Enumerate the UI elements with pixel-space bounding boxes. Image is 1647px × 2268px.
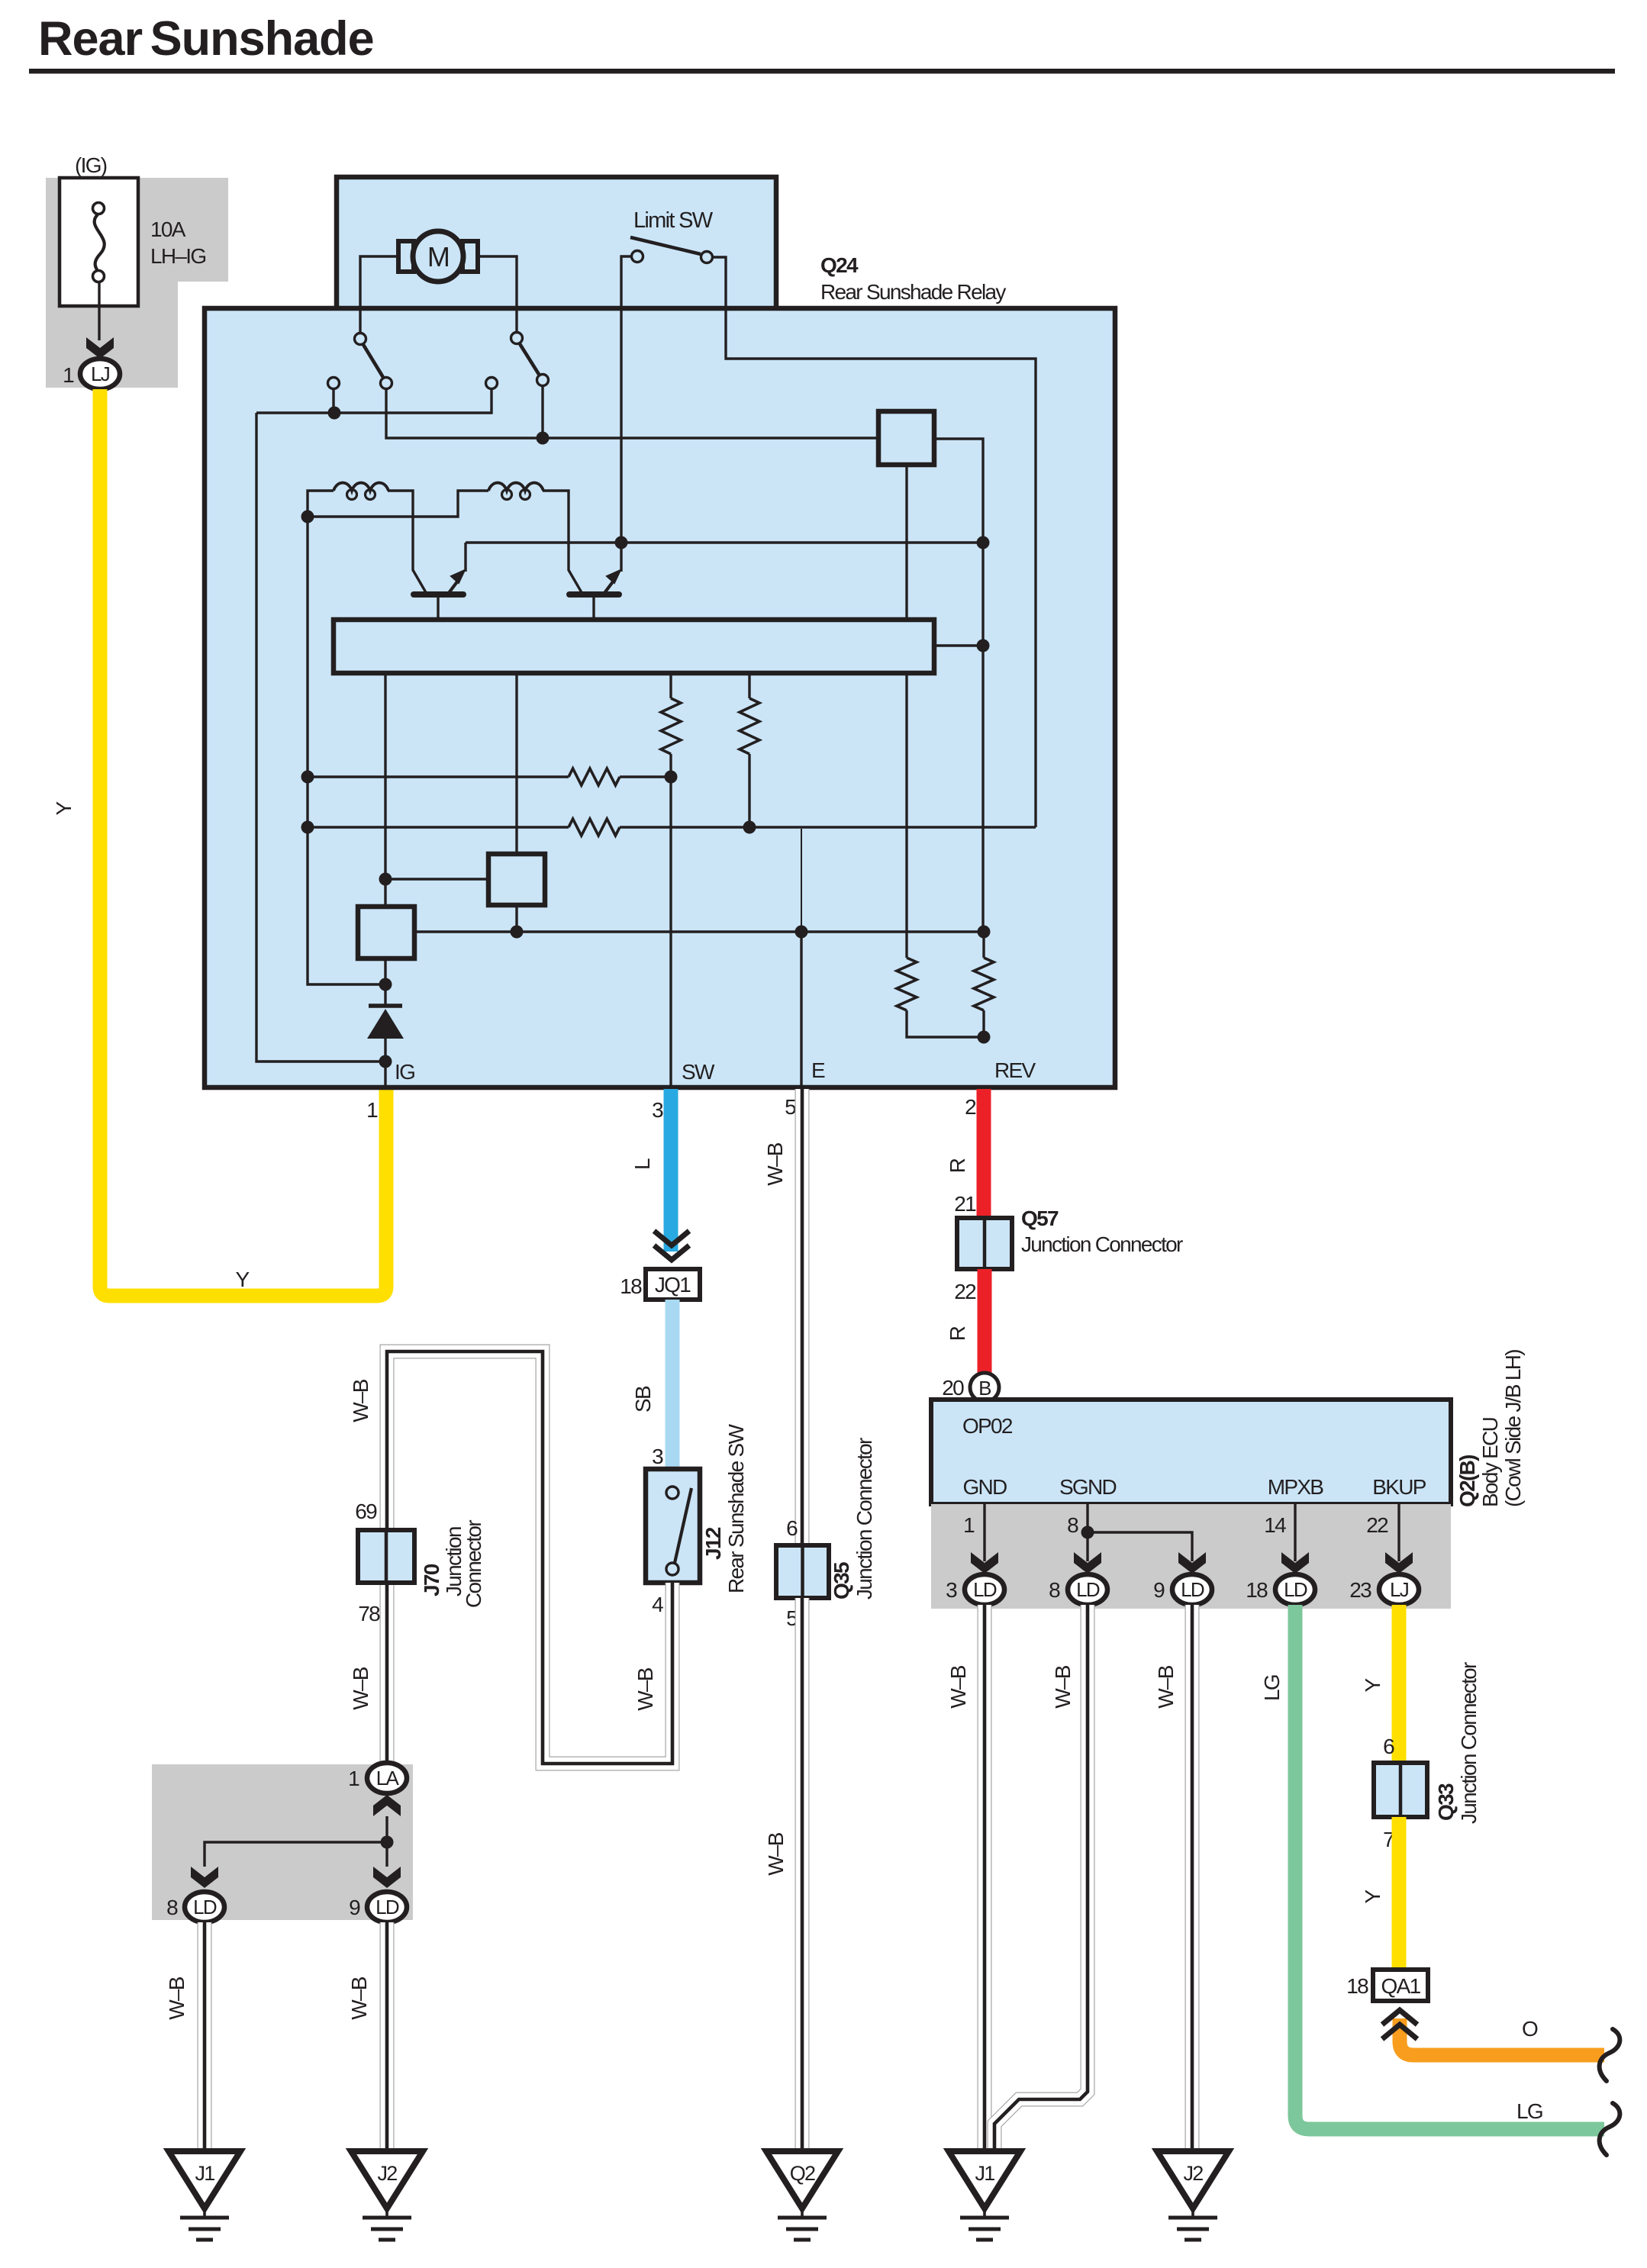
svg-text:W–B: W–B [347,1976,371,2020]
wire left rail x403 [308,517,385,984]
svg-text:J2: J2 [1183,2162,1203,2185]
svg-text:W–B: W–B [633,1667,657,1711]
continuation mark LG [1600,2103,1620,2155]
svg-text:Y: Y [1361,1889,1384,1903]
relay contact switch 1 [328,333,392,389]
svg-text:Y: Y [236,1268,250,1291]
wire x1188 below bar [905,673,907,958]
fuse 10A LH-IG [60,178,138,306]
relay contact switch 2 [486,333,549,389]
wire fuse to connector LJ [98,282,100,340]
svg-text:20: 20 [942,1376,964,1400]
arrow into QA1 [1382,2010,1417,2039]
svg-text:LG: LG [1260,1675,1284,1701]
svg-text:22: 22 [1366,1513,1388,1537]
wire 9 LD to ground J2 (W-B) [380,1922,395,2151]
svg-text:1: 1 [963,1513,975,1537]
svg-text:W–B: W–B [1154,1665,1178,1709]
svg-text:14: 14 [1264,1513,1286,1537]
connector Q57 [957,1218,1012,1269]
svg-text:8: 8 [1049,1578,1060,1602]
component square B [358,907,414,958]
svg-text:R: R [946,1326,969,1341]
svg-text:LD: LD [375,1896,399,1918]
svg-text:E: E [811,1058,825,1082]
resistor Rc [897,958,917,1010]
svg-text:W–B: W–B [349,1379,372,1422]
wire LG (18 LD to page edge) [1295,1605,1604,2129]
svg-text:J12: J12 [701,1527,725,1560]
wire node line y1221 [414,930,984,933]
wire J12 pin4 loop to LA (W-B) [387,1351,672,1764]
svg-text:LJ: LJ [1390,1578,1409,1601]
svg-text:3: 3 [652,1445,663,1468]
ground Q2 [766,2151,838,2240]
motor M [398,231,478,282]
svg-text:18: 18 [1246,1578,1268,1602]
svg-text:Q24: Q24 [820,253,859,277]
connector Q33 [1374,1763,1427,1817]
svg-text:10A: 10A [150,217,186,241]
svg-text:O: O [1522,2017,1538,2041]
svg-text:W–B: W–B [763,1142,787,1186]
svg-text:LA: LA [376,1767,400,1790]
svg-text:W–B: W–B [1051,1665,1075,1709]
svg-text:3: 3 [946,1578,957,1602]
wire square B bottom to diode [384,958,386,984]
resistor Rf (horizontal) [569,819,620,836]
wire emitter rail y711 [466,541,983,543]
connector 9 LD [1172,1574,1212,1605]
svg-text:Y: Y [1361,1677,1384,1692]
component square A [878,411,934,465]
continuation mark O [1600,2029,1620,2081]
svg-text:6: 6 [786,1516,798,1540]
svg-text:W–B: W–B [764,1832,788,1876]
svg-text:J1: J1 [195,2162,214,2185]
svg-text:SB: SB [631,1386,655,1413]
svg-text:LD: LD [1076,1578,1100,1601]
wire Y (Q33 to QA1) [1392,1817,1407,1970]
transistor Q2 [569,543,621,620]
svg-text:Q2(B): Q2(B) [1455,1455,1479,1507]
svg-text:Junction Connector: Junction Connector [1457,1662,1481,1824]
svg-text:Limit SW: Limit SW [633,208,714,233]
svg-text:(Cowl Side J/B LH): (Cowl Side J/B LH) [1501,1350,1525,1507]
svg-text:QA1: QA1 [1381,1974,1421,1998]
junction dots relay [328,407,341,420]
wire limit SW right contact to REV side [713,257,1036,827]
connector J70 [358,1530,414,1583]
svg-text:1: 1 [63,363,74,387]
svg-text:1: 1 [348,1767,359,1790]
wire MPXB pin [1294,1504,1296,1561]
svg-text:Connector: Connector [462,1520,485,1608]
wire GND pin [983,1504,985,1561]
svg-text:Q57: Q57 [1021,1206,1059,1230]
connector JQ1 [646,1269,700,1300]
connector QA1 [1373,1970,1428,2001]
wire Y (fuse LJ to relay pin 1 IG) [100,389,386,1296]
svg-text:(IG): (IG) [75,153,107,177]
svg-text:Body ECU: Body ECU [1478,1417,1502,1507]
svg-text:21: 21 [954,1192,976,1216]
connector LJ [80,359,120,389]
svg-text:1: 1 [366,1098,378,1122]
wire IG pin [384,1062,386,1089]
wire Q35 to ground Q2 (W-B) [795,1598,810,2151]
svg-text:W–B: W–B [165,1976,189,2020]
relay Q24 main box [205,308,1115,1087]
resistor Ra [669,673,672,698]
svg-text:M: M [427,241,449,272]
connector 23 LJ [1379,1574,1419,1605]
svg-text:Rear Sunshade SW: Rear Sunshade SW [724,1423,748,1593]
svg-text:LJ: LJ [91,362,110,385]
svg-text:9: 9 [349,1896,360,1919]
arrow into connector [971,1552,998,1574]
wire BKUP pin [1397,1504,1400,1561]
svg-text:JQ1: JQ1 [655,1273,691,1297]
svg-text:8: 8 [166,1896,178,1919]
gray block fuse (IG) area [46,178,228,388]
ground J2 [351,2151,423,2240]
svg-text:23: 23 [1349,1578,1371,1602]
ground J2 [1157,2151,1229,2240]
svg-text:2: 2 [965,1095,976,1119]
ground J1 [949,2151,1020,2240]
wire resistor line y1018 [308,775,569,778]
limit switch Limit SW [630,208,714,263]
gray block ECU connectors [931,1504,1451,1609]
connector 3 LD [965,1574,1004,1605]
wire limit SW left contact down [621,256,631,543]
svg-text:18: 18 [620,1274,642,1298]
svg-text:8: 8 [1067,1513,1078,1537]
resistor Rd [974,958,994,1010]
node B [970,1373,999,1402]
svg-text:SGND: SGND [1059,1475,1117,1499]
svg-text:LD: LD [1181,1578,1204,1601]
svg-text:R: R [946,1158,969,1173]
wire contact line y574 to square A [386,389,878,438]
wire left rail x336 [256,413,385,1062]
coil 2 [308,491,488,517]
arrow into LA [373,1795,401,1816]
diode D1 [367,984,404,1062]
wire relay E to Q35 (W-B) [795,1089,810,1545]
svg-text:IG: IG [395,1060,414,1084]
wire square B to square C [385,878,488,880]
svg-text:9: 9 [1153,1578,1165,1602]
ECU Q2(B) Body ECU box [931,1400,1451,1504]
arrow into connector [1178,1552,1206,1574]
wire square A to x1288 rail [934,439,983,933]
svg-text:B: B [978,1377,991,1400]
switch J12 Rear Sunshade SW [646,1469,700,1583]
svg-text:SW: SW [682,1060,715,1084]
connector 9 LD [367,1892,407,1922]
arrow into connector [1385,1552,1413,1574]
svg-text:J70: J70 [420,1564,443,1596]
wire SGND pin [1088,1504,1192,1561]
svg-text:Q2: Q2 [790,2162,815,2185]
relay Q24 motor sub-box [337,177,776,313]
wire SW pin [669,777,672,1089]
svg-text:5: 5 [785,1095,796,1119]
svg-text:OP02: OP02 [962,1414,1013,1438]
svg-text:LD: LD [193,1896,217,1918]
transistor Q1 [414,543,466,620]
wire LA to LD branch [205,1816,387,1867]
resistor Re (horizontal) [569,768,620,785]
svg-text:LD: LD [1284,1578,1307,1601]
wire square C bottom [515,905,517,932]
wire R (Q57 to body ECU) [978,1269,992,1373]
svg-text:W–B: W–B [349,1667,372,1710]
wire Y (23 LJ to Q33) [1392,1605,1407,1763]
svg-text:Q33: Q33 [1434,1783,1458,1821]
svg-text:Q35: Q35 [830,1562,853,1600]
wire square A bottom x1188 [905,465,907,620]
connector Q35 [776,1545,829,1598]
arrow into connector [1074,1552,1101,1574]
svg-text:J2: J2 [377,2162,397,2185]
connector 8 LD [1068,1574,1107,1605]
motor M leads [360,256,400,339]
svg-text:Rear Sunshade: Rear Sunshade [38,12,374,66]
svg-text:MPXB: MPXB [1268,1475,1324,1499]
wire bar to square C chain x677 [515,673,517,854]
component control bar [334,620,934,673]
arrow into LD 9 [373,1867,401,1888]
svg-text:LD: LD [973,1578,997,1601]
svg-text:6: 6 [1383,1735,1394,1758]
resistor Rb [748,673,750,698]
connector LA [367,1763,407,1793]
svg-text:22: 22 [954,1280,976,1303]
wire 3 LD to ground J1 (W-B) [978,1605,992,2151]
wire 8 LD to ground J1 (W-B) [994,1605,1088,2151]
connector 18 LD [1275,1574,1315,1605]
wire E pin [800,933,802,1089]
wire contact line y541 [332,389,334,413]
wire bar right stub [934,644,983,646]
gray block LA LD connectors [152,1764,413,1920]
svg-text:LH–IG: LH–IG [150,244,205,268]
svg-text:Rear Sunshade Relay: Rear Sunshade Relay [820,280,1006,304]
svg-text:Junction Connector: Junction Connector [853,1438,876,1600]
coil 1 [308,491,334,517]
arrow into LD 8 [191,1867,218,1888]
wire bar to square B chain x505 [384,673,386,907]
wire 8 LD to ground J1 (W-B) [198,1922,212,2151]
wire R (relay REV to Q57) [977,1089,991,1218]
svg-text:LG: LG [1516,2099,1542,2123]
svg-text:L: L [630,1158,654,1170]
wire E vertical thin [801,829,802,933]
wire resistor line y1084 [308,826,569,828]
svg-text:W–B: W–B [946,1665,970,1709]
wire 9 LD to ground J2 (W-B) [1185,1605,1200,2151]
arrow into connector [1281,1552,1309,1574]
svg-text:4: 4 [652,1593,663,1616]
svg-text:Junction Connector: Junction Connector [1021,1232,1183,1256]
wire L (relay SW to JQ1) [664,1089,678,1252]
svg-text:69: 69 [355,1500,377,1523]
component square C [488,854,545,905]
ground J1 [169,2151,240,2240]
svg-text:BKUP: BKUP [1372,1475,1426,1499]
connector 8 LD [185,1892,224,1922]
svg-text:3: 3 [652,1098,663,1122]
svg-text:REV: REV [994,1058,1036,1082]
svg-text:78: 78 [358,1602,380,1625]
wire SB (JQ1 to J12) [666,1300,680,1469]
wire O (QA1 to page edge) [1400,2018,1604,2055]
svg-text:J1: J1 [975,2162,994,2185]
svg-text:18: 18 [1346,1974,1368,1998]
svg-text:Y: Y [52,801,76,815]
svg-text:GND: GND [962,1475,1007,1499]
